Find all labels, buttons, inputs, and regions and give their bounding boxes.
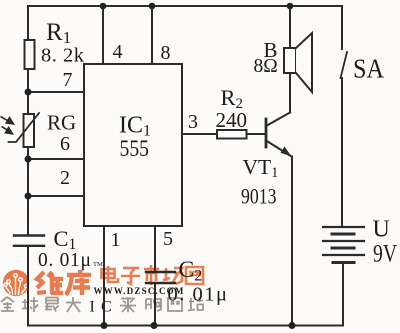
svg-text:2: 2 (60, 167, 70, 189)
svg-text:3: 3 (188, 111, 198, 133)
svg-text:8. 2k: 8. 2k (41, 45, 85, 67)
svg-text:555: 555 (120, 136, 150, 161)
svg-text:SA: SA (353, 54, 384, 84)
svg-text:8Ω: 8Ω (254, 56, 278, 77)
svg-text:1: 1 (111, 229, 121, 251)
svg-text:7: 7 (63, 69, 73, 91)
svg-text:RG: RG (47, 111, 76, 135)
svg-text:9013: 9013 (241, 184, 277, 209)
svg-text:C: C (101, 299, 112, 316)
svg-text:6: 6 (60, 133, 70, 155)
svg-text:0. 01μ: 0. 01μ (168, 284, 229, 306)
svg-text:I: I (90, 299, 95, 316)
svg-text:240: 240 (216, 108, 248, 132)
svg-text:5: 5 (163, 228, 173, 250)
svg-text:0. 01μ: 0. 01μ (38, 250, 92, 271)
svg-text:TM: TM (93, 261, 103, 268)
svg-text:9V: 9V (373, 241, 397, 268)
svg-text:4: 4 (113, 41, 123, 63)
svg-text:U: U (373, 217, 390, 243)
svg-text:8: 8 (161, 42, 171, 64)
